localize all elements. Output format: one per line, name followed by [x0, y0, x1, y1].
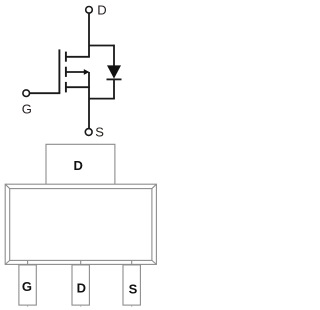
wire gate lead horizontal	[30, 92, 61, 94]
gate bar	[58, 49, 60, 93]
wire source lead horizontal	[66, 86, 90, 88]
diode D1 triangle (anode top, points down)	[107, 65, 121, 78]
wire drain vertical	[88, 13, 90, 57]
package outline SOT-89	[5, 144, 156, 306]
svg-text:D: D	[74, 158, 83, 173]
channel bar drain	[65, 52, 67, 62]
pin 2 bottom tick	[80, 305, 82, 307]
pin 2 neck tick	[80, 260, 82, 265]
bevel top-left	[5, 184, 10, 188]
channel bar body	[65, 67, 67, 77]
wire body lead with arrow shaft	[66, 71, 85, 73]
package tab	[46, 144, 115, 184]
svg-text:S: S	[129, 282, 138, 297]
channel bar source	[65, 82, 67, 93]
pin 1 neck tick	[27, 260, 29, 265]
svg-text:S: S	[95, 125, 104, 140]
pin 3 lead S	[123, 265, 140, 305]
wire source/body vertical to S	[88, 72, 90, 129]
bevel bottom-right	[152, 260, 157, 264]
wire diode cathode-side vertical (top)	[113, 45, 115, 66]
pin 1 lead G	[19, 265, 36, 305]
diode D1 cathode bar	[107, 78, 122, 80]
wire diode bottom branch	[89, 98, 115, 100]
pin 3 bottom tick	[131, 305, 133, 307]
terminal S circle	[85, 129, 92, 136]
wire drain lead horizontal	[66, 56, 90, 58]
terminal D circle	[86, 7, 93, 14]
pin 1 bottom tick	[27, 305, 29, 307]
bevel bottom-left	[5, 260, 10, 264]
pin 2 lead D	[72, 265, 89, 305]
wire diode top branch	[89, 45, 114, 47]
body arrow (points right, P-channel)	[84, 69, 90, 75]
svg-text:D: D	[97, 3, 106, 18]
svg-text:G: G	[22, 279, 32, 294]
svg-text:D: D	[77, 280, 86, 295]
pin 3 neck tick	[131, 260, 133, 265]
terminal G circle	[23, 90, 30, 97]
package body inner rect	[10, 189, 152, 261]
package body outer rect	[5, 184, 156, 264]
wire diode anode-side vertical (bottom)	[113, 79, 115, 98]
svg-text:G: G	[22, 102, 32, 117]
MOSFET Q1 (P-channel with body diode) schematic	[23, 7, 122, 136]
bevel top-right	[152, 184, 157, 188]
